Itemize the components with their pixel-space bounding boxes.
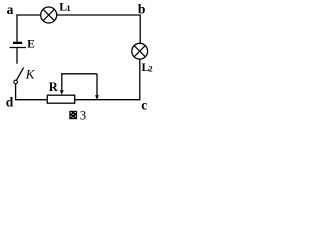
caption glyph 图 (drawn) (69, 111, 77, 119)
wire: left vertical from node a to battery (16, 14, 18, 41)
svg-text:R: R (49, 80, 59, 94)
wire: jumper right vertical with arrow to bottom wire (95, 74, 99, 100)
lamp L2 (132, 43, 148, 59)
wire: lamp L2 to node c (139, 59, 141, 100)
svg-text:c: c (141, 97, 147, 112)
switch K (14, 68, 24, 84)
wire: bottom from rheostat to node c (75, 99, 141, 101)
svg-text:d: d (6, 94, 14, 109)
label L2 (142, 60, 153, 74)
wire: top from lamp L1 to node b (57, 14, 141, 16)
battery E (10, 42, 27, 48)
svg-text:b: b (138, 1, 146, 16)
wire: wiper jumper horizontal (61, 73, 97, 75)
svg-text:K: K (25, 67, 36, 82)
wire: battery to switch (16, 48, 18, 64)
lamp L1 (41, 7, 57, 23)
svg-text:1: 1 (66, 3, 70, 13)
rheostat R body (47, 95, 74, 103)
wire: switch to node d (15, 84, 47, 101)
svg-text:E: E (27, 39, 35, 51)
svg-text:2: 2 (148, 64, 152, 74)
wire: right vertical from node b to lamp L2 (139, 14, 141, 43)
rheostat wiper arrow (60, 74, 64, 95)
label L1 (59, 0, 70, 14)
wire: top-left from node a to lamp L1 (16, 14, 40, 16)
svg-text:3: 3 (80, 108, 86, 122)
svg-text:a: a (7, 2, 14, 17)
